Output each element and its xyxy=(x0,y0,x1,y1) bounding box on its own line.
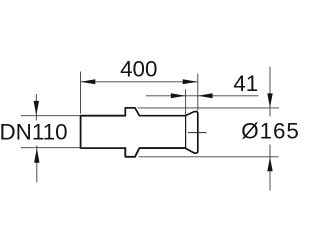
svg-text:Ø165: Ø165 xyxy=(241,119,299,144)
center mark tick at bell face xyxy=(188,132,207,134)
svg-text:400: 400 xyxy=(120,57,157,82)
dia165 dimension line lower tail xyxy=(269,145,271,191)
DN110 top arrow tail xyxy=(35,94,37,120)
dim 41 right arrowhead xyxy=(198,93,213,98)
dia165 bottom arrowhead xyxy=(267,157,272,171)
bell cone outline xyxy=(185,111,198,153)
DN110 top arrowhead xyxy=(34,101,39,116)
svg-text:41: 41 xyxy=(233,71,258,96)
dia165 top arrowhead xyxy=(267,93,272,107)
collar ring outline xyxy=(125,108,185,116)
dim 400 left arrowhead xyxy=(81,79,96,84)
dim 400/41 right extension line xyxy=(197,74,199,111)
dim 400 right arrowhead xyxy=(183,79,198,84)
dim 41 dimension line xyxy=(146,95,259,97)
DN110 bottom arrow tail xyxy=(36,146,38,183)
pipe spigot body outline xyxy=(81,116,126,148)
bell left edge xyxy=(185,116,187,148)
dia165 bottom extension line xyxy=(139,156,279,158)
dim 400 left extension line xyxy=(80,72,82,114)
DN110 bottom extension line xyxy=(21,147,83,149)
svg-text:DN110: DN110 xyxy=(0,119,68,144)
dim 400 dimension line xyxy=(81,81,198,83)
dia165 top extension line xyxy=(138,107,280,109)
dia165 dimension line upper tail xyxy=(269,67,271,117)
DN110 bottom arrowhead xyxy=(34,148,39,163)
DN110 top extension line xyxy=(21,115,81,117)
dim 41 left arrowhead xyxy=(171,93,186,98)
dim 41 left extension line xyxy=(185,89,187,115)
